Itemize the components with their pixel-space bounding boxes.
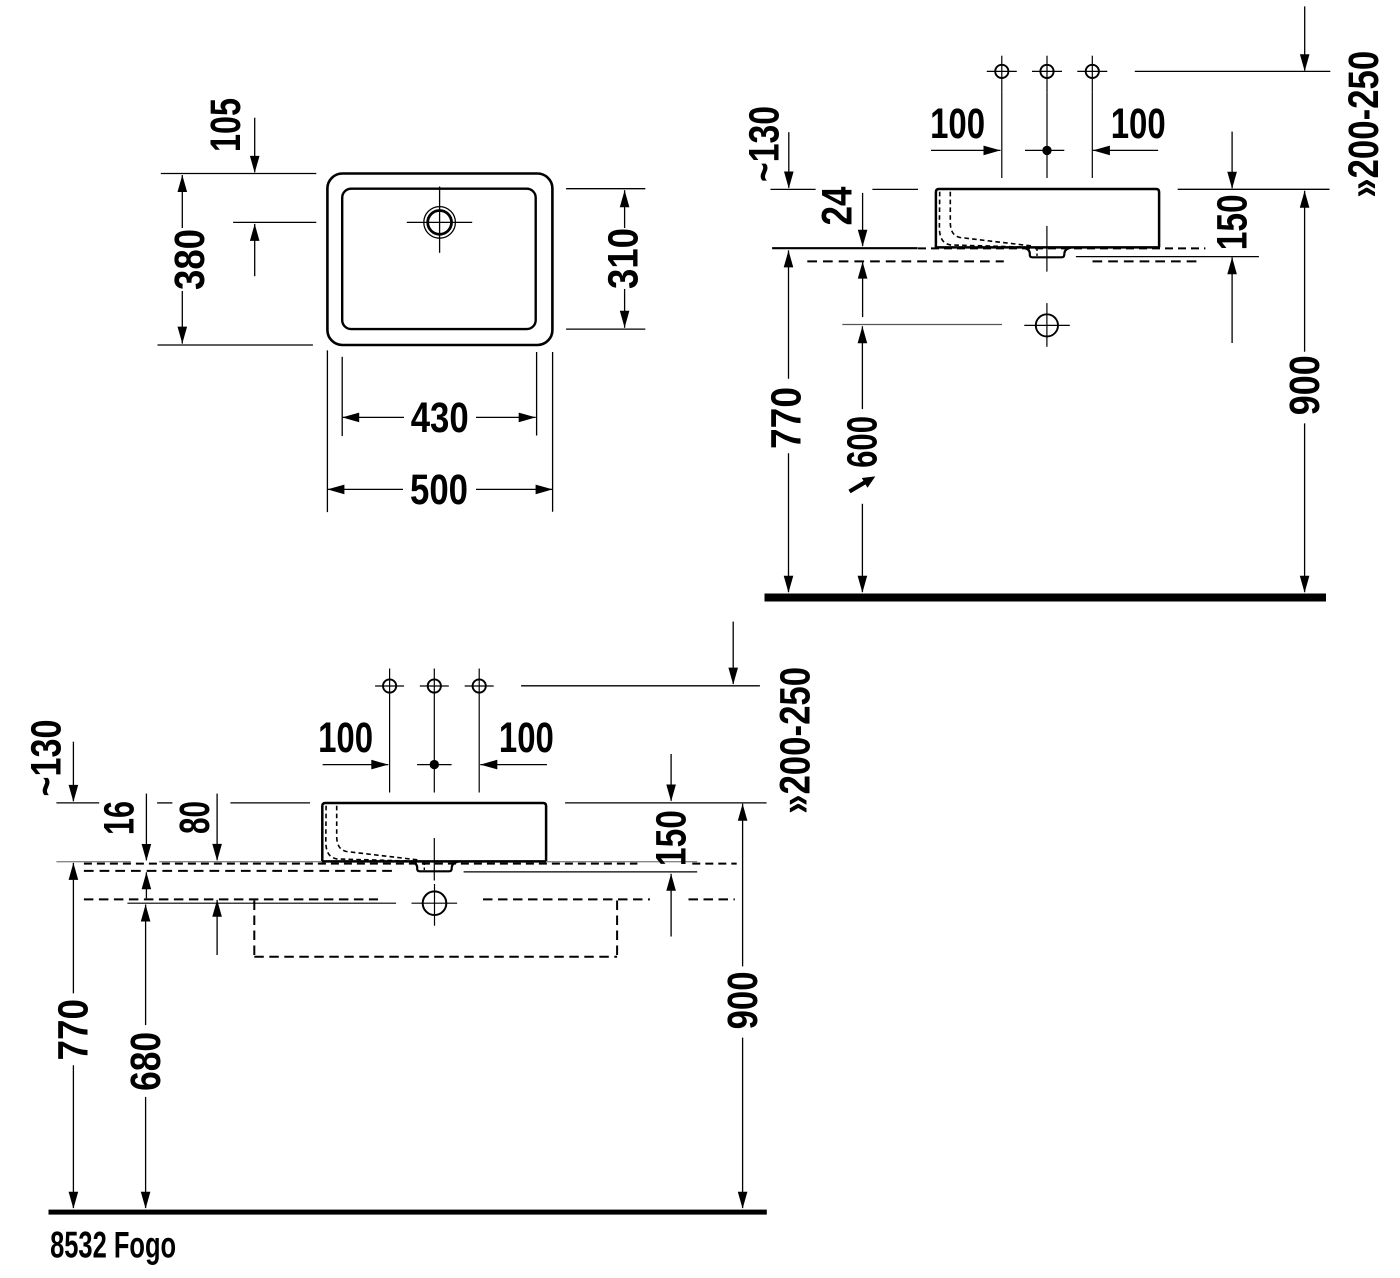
- svg-text:150: 150: [1209, 194, 1256, 250]
- svg-text:8532 Fogo: 8532 Fogo: [50, 1224, 176, 1265]
- svg-text:600: 600: [840, 416, 887, 468]
- svg-text:100: 100: [499, 715, 554, 762]
- svg-text:»200-250: »200-250: [773, 667, 820, 814]
- svg-text:~130: ~130: [24, 720, 71, 797]
- svg-text:80: 80: [172, 801, 219, 834]
- svg-text:100: 100: [1111, 101, 1166, 148]
- svg-text:310: 310: [600, 228, 647, 289]
- svg-text:~130: ~130: [741, 106, 788, 182]
- svg-text:100: 100: [318, 715, 373, 762]
- svg-text:150: 150: [648, 810, 695, 866]
- svg-text:380: 380: [167, 229, 214, 290]
- svg-text:680: 680: [123, 1032, 170, 1091]
- svg-text:500: 500: [410, 467, 468, 514]
- svg-text:16: 16: [97, 801, 144, 835]
- svg-text:770: 770: [764, 387, 811, 449]
- svg-text:900: 900: [720, 971, 767, 1029]
- svg-text:105: 105: [203, 98, 250, 152]
- svg-text:»200-250: »200-250: [1341, 51, 1388, 198]
- svg-text:900: 900: [1282, 355, 1329, 415]
- svg-text:100: 100: [930, 101, 985, 148]
- svg-text:770: 770: [51, 999, 98, 1061]
- svg-text:430: 430: [411, 395, 469, 442]
- svg-text:24: 24: [815, 186, 862, 225]
